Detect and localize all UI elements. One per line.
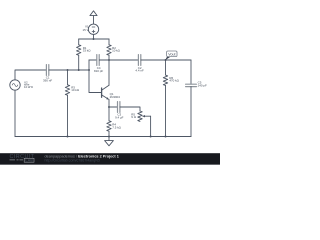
svg-text:390 nF: 390 nF: [43, 78, 52, 82]
wire C5 bottom lead: [190, 87, 192, 137]
wire C3 to R5 top: [120, 107, 140, 111]
capacitor C2: [138, 55, 140, 66]
node Vout junction: [165, 59, 167, 61]
svg-text:2N3904: 2N3904: [110, 95, 121, 99]
transistor Q1: [101, 88, 103, 97]
wire R2 bottom to collector: [108, 55, 110, 85]
capacitor C4: [97, 55, 99, 66]
node R3 ground junction: [67, 136, 69, 138]
node collector wire junction: [108, 59, 110, 61]
svg-text:10 kΩ: 10 kΩ: [112, 49, 121, 53]
wire R1 bottom lead to base net: [78, 55, 80, 70]
wire C1 right to base net: [49, 69, 89, 71]
resistor R1: [77, 45, 81, 55]
svg-text:4.4 nF: 4.4 nF: [135, 69, 144, 73]
wire R6 top lead: [165, 60, 167, 75]
node base net junction: [88, 69, 90, 71]
wire R5 wiper to ground rail: [150, 116, 152, 136]
capacitor C1: [46, 65, 48, 76]
node emitter junction: [108, 106, 110, 108]
wire R2 top lead: [108, 39, 110, 45]
resistor R4: [107, 121, 111, 131]
wire C4 left segment: [89, 59, 97, 61]
svg-text:10 kHz: 10 kHz: [24, 85, 34, 89]
svg-text:LAB: LAB: [25, 159, 33, 163]
node R4 ground junction: [108, 136, 110, 138]
wire C5 top lead: [190, 60, 192, 84]
svg-text:7.5 kΩ: 7.5 kΩ: [112, 126, 121, 130]
svg-text:810 pF: 810 pF: [94, 69, 103, 73]
wire emitter lead: [108, 99, 110, 107]
wire R6 bottom lead: [165, 86, 167, 137]
wire ground rail: [15, 136, 191, 138]
svg-text:9.4 μF: 9.4 μF: [115, 116, 124, 120]
node R1 bottom junction: [78, 69, 80, 71]
wire R4 bottom lead: [108, 131, 110, 136]
wire R1 top lead: [78, 39, 80, 45]
wire C4 right to C2 left: [99, 59, 138, 61]
wire V2 top to C1: [15, 70, 46, 80]
capacitor C5: [186, 84, 197, 86]
voltage source V2: [10, 80, 20, 90]
wire R3 top lead: [67, 70, 69, 85]
node R6 ground junction: [165, 136, 167, 138]
wire base net vertical and base lead: [89, 60, 102, 93]
svg-text:240 pF: 240 pF: [198, 83, 207, 87]
footer bar: [0, 153, 220, 164]
svg-text:Vout: Vout: [168, 52, 175, 56]
node R3 top junction: [67, 69, 69, 71]
svg-text:15 V: 15 V: [83, 28, 89, 32]
resistor R6: [163, 75, 167, 85]
wire top rail: [79, 38, 109, 40]
wiper arrow R5: [145, 115, 151, 117]
capacitor C3: [118, 102, 120, 113]
wire emitter to C3: [109, 106, 118, 108]
svg-text:470 kΩ: 470 kΩ: [169, 79, 179, 83]
wire C2 right to C5 column: [141, 59, 191, 61]
wire V2 bottom to ground rail: [14, 90, 16, 136]
potentiometer R5: [138, 111, 142, 121]
wire V1 bottom to top rail: [93, 35, 95, 40]
wire R4 top lead: [108, 107, 110, 121]
svg-text:http://circuitlab.com/c7867t4a: http://circuitlab.com/c7867t4anqN5: [45, 159, 100, 163]
resistor R3: [65, 85, 69, 95]
node R5 ground junction: [150, 136, 152, 138]
ground: [108, 137, 110, 141]
resistor R2: [107, 45, 111, 55]
voltage source V1: [88, 24, 98, 34]
node top rail junction: [93, 38, 95, 40]
svg-text:9 Ω: 9 Ω: [131, 115, 136, 119]
svg-text:33 kΩ: 33 kΩ: [83, 49, 92, 53]
logo CircuitLab: [10, 154, 35, 162]
wire VCC arrow to V1 top: [93, 16, 95, 25]
power flag VCC arrow: [90, 11, 97, 16]
net flag Vout: [165, 51, 177, 60]
wire R3 bottom lead: [67, 95, 69, 136]
svg-text:10 kΩ: 10 kΩ: [71, 88, 80, 92]
